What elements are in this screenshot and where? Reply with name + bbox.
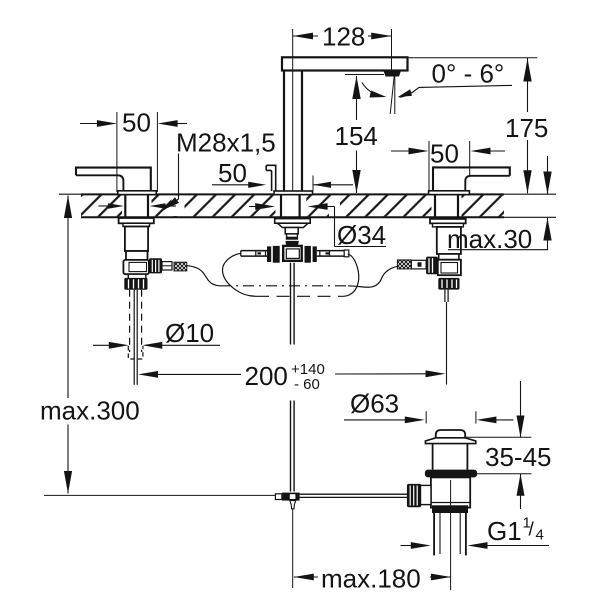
- dim 50 left: [116, 112, 118, 192]
- tee right tube: [317, 250, 344, 252]
- dim 175: [408, 57, 537, 59]
- pop-up rod vertical: [290, 263, 292, 345]
- left braided hose: [174, 262, 187, 271]
- drain cap skirt: [425, 438, 475, 444]
- dim 200 +140/-60: [156, 373, 241, 375]
- svg-text:Ø10: Ø10: [165, 318, 214, 348]
- spout bar: [282, 57, 408, 70]
- right handle flange: [429, 191, 470, 195]
- hose from left valve braid, S-curve then dash-dot across: [187, 266, 220, 286]
- svg-text:50: 50: [430, 139, 459, 169]
- dim 154: [345, 74, 384, 76]
- drain body: [431, 477, 470, 507]
- svg-text:35-45: 35-45: [485, 442, 552, 472]
- countertop top line: [59, 193, 81, 195]
- left hose fitting: [162, 262, 172, 270]
- dim max.30: [547, 156, 549, 195]
- right shank through deck: [434, 194, 436, 217]
- left shank through deck: [124, 194, 126, 217]
- spout column: [283, 71, 285, 192]
- countertop hatched section: [81, 194, 504, 218]
- left supply tube solid: [133, 290, 135, 385]
- right supply tube: [444, 290, 446, 302]
- pop-up junction: [44, 494, 275, 496]
- countertop bottom line: [81, 216, 504, 218]
- svg-text:M28x1,5: M28x1,5: [176, 128, 276, 158]
- svg-text:128: 128: [322, 22, 365, 52]
- left handle lever and body: [76, 168, 151, 193]
- left valve flange under deck: [119, 218, 154, 223]
- svg-text:max.30: max.30: [447, 224, 532, 254]
- left valve side port nut: [149, 258, 162, 273]
- water stream lines 0-6 deg: [394, 76, 396, 114]
- hose from right valve braid, S-curve joining dash-dot: [348, 266, 398, 287]
- drain side port: [420, 485, 432, 504]
- left valve bottom nut: [124, 278, 147, 290]
- angle label 0-6 deg: [362, 83, 383, 97]
- dim 50 center: [312, 176, 314, 192]
- center tee block: [283, 246, 302, 261]
- svg-text:4: 4: [536, 527, 544, 544]
- aerator: [384, 71, 402, 77]
- drain knurled knob: [407, 484, 421, 507]
- dim diam 10: [93, 344, 111, 346]
- right valve body: [437, 227, 461, 254]
- svg-text:G1: G1: [487, 516, 522, 546]
- left handle flange: [118, 191, 156, 195]
- drain flange ring: [425, 470, 477, 478]
- left shank hole arrows: [99, 205, 111, 207]
- label diam 34: [249, 206, 259, 208]
- svg-text:Ø63: Ø63: [350, 389, 399, 419]
- pop-up rod hook: [266, 165, 276, 191]
- right hose fitting: [411, 260, 426, 269]
- tee collars: [267, 246, 271, 262]
- svg-text:max.180: max.180: [321, 564, 421, 594]
- left valve elbow: [123, 260, 148, 274]
- horizontal pop-up rod to drain: [300, 493, 408, 495]
- svg-text:154: 154: [335, 121, 378, 151]
- right braided hose: [397, 260, 411, 269]
- right valve side port nut: [426, 257, 438, 275]
- svg-text:/: /: [529, 520, 535, 541]
- dim max.180: [294, 576, 318, 578]
- center mounting nut: [275, 219, 311, 224]
- svg-text:50: 50: [122, 108, 151, 138]
- drain centerline: [450, 480, 452, 590]
- center shank through deck: [280, 194, 282, 218]
- spout base flange: [274, 191, 313, 195]
- svg-text:Ø34: Ø34: [337, 220, 386, 250]
- hose U from tee left arm down and around to tee right arm: [223, 253, 257, 296]
- tee left tube: [241, 250, 267, 252]
- center body pieces: [285, 228, 298, 234]
- drain neck: [432, 444, 434, 470]
- svg-text:50: 50: [218, 158, 247, 188]
- drain tailpipe: [433, 513, 435, 555]
- dim 35-45: [464, 436, 532, 438]
- label G1 1/4: [401, 545, 414, 547]
- svg-text:max.300: max.300: [40, 396, 140, 426]
- left supply tube dashed alt position: [129, 290, 131, 352]
- drain bottom flange: [432, 505, 468, 513]
- right valve flange under deck: [430, 219, 466, 224]
- svg-text:0° - 6°: 0° - 6°: [432, 59, 505, 89]
- svg-text:175: 175: [505, 113, 548, 143]
- right valve elbow: [438, 260, 461, 276]
- right handle lever and body: [433, 167, 510, 192]
- dim max.300: [67, 196, 69, 399]
- left valve body: [125, 227, 148, 252]
- svg-text:200: 200: [245, 361, 288, 391]
- dim 50 right: [428, 141, 430, 192]
- dim 128: [292, 29, 294, 191]
- svg-text:- 60: - 60: [294, 376, 320, 393]
- right valve bottom nut: [438, 278, 459, 290]
- drain cap top: [436, 430, 465, 438]
